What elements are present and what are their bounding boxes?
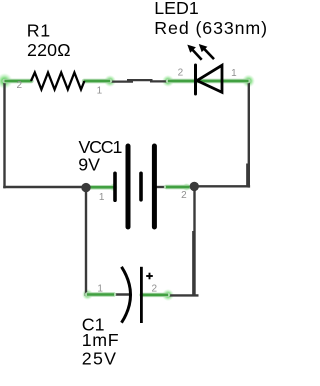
svg-text:LED1: LED1 <box>154 0 199 18</box>
green leg resistor pin2 <box>5 79 32 83</box>
wire left vertical <box>3 80 5 189</box>
LED1 cathode bar <box>194 65 197 94</box>
green leg LED pin2 and pin1 <box>168 79 249 83</box>
capacitor C1 straight plate <box>140 267 143 323</box>
LED1 emission arrow 1 <box>187 45 201 60</box>
wire right down vertical doubled lower part <box>192 231 194 295</box>
node glow battery pin2 <box>183 183 191 191</box>
svg-text:1: 1 <box>97 284 103 295</box>
wire cap pin1 stub <box>110 293 131 295</box>
wire cap row right <box>168 294 199 296</box>
wire top middle segment a <box>110 80 133 82</box>
svg-text:1: 1 <box>99 192 105 203</box>
LED1 triangle <box>197 65 222 92</box>
node glow LED pin2 end <box>162 75 174 87</box>
green leg capacitor pin2 <box>142 293 169 297</box>
svg-text:25V: 25V <box>82 348 118 368</box>
battery VCC1 short bar 2 (negative plate) <box>139 173 143 200</box>
svg-text:1: 1 <box>97 86 103 97</box>
node glow battery pin1 <box>109 183 117 191</box>
svg-text:Red (633nm): Red (633nm) <box>154 18 268 38</box>
svg-text:2: 2 <box>181 190 187 201</box>
wire battery pin2 stub <box>156 186 166 188</box>
wire battery row left <box>3 186 86 188</box>
wire right down vertical <box>193 187 195 297</box>
resistor R1 zigzag <box>31 73 84 90</box>
wire right vertical doubled lower part <box>246 164 248 188</box>
wire battery row right <box>194 185 250 187</box>
node glow resistor pin1 end <box>104 75 116 87</box>
battery VCC1 short bar 1 (negative plate) <box>113 173 117 200</box>
battery VCC1 tall bar 1 (positive plate) <box>126 146 131 227</box>
svg-text:R1: R1 <box>27 20 51 40</box>
node glow capacitor pin1 corner <box>82 289 93 300</box>
battery VCC1 tall bar 2 (positive plate) <box>152 146 157 227</box>
green leg battery pin1 <box>91 185 114 189</box>
wire left down vertical <box>85 188 87 296</box>
green leg resistor pin1 <box>84 79 110 83</box>
wire cap row left corner <box>85 293 100 295</box>
node glow capacitor pin2 end <box>162 289 174 301</box>
svg-text:1: 1 <box>231 68 237 79</box>
capacitor C1 curved plate <box>122 267 131 323</box>
junction dot right (node between LED1, VCC1, C1) <box>190 182 199 191</box>
svg-text:2: 2 <box>178 68 184 79</box>
wire top middle segment c <box>150 80 168 82</box>
node glow top-left corner <box>0 73 13 89</box>
capacitor C1 plus sign <box>146 273 153 280</box>
LED1 emission arrow 2 <box>199 44 214 59</box>
svg-text:1mF: 1mF <box>82 330 119 350</box>
svg-text:220Ω: 220Ω <box>27 40 71 60</box>
green leg capacitor pin1 <box>87 292 114 296</box>
svg-text:9V: 9V <box>78 154 100 174</box>
junction dot left (node between R1, VCC1, C1) <box>81 183 90 192</box>
svg-text:2: 2 <box>152 283 158 294</box>
wire right vertical <box>248 80 250 188</box>
wire top middle segment b (offset jog) <box>127 79 153 81</box>
node glow LED pin1 corner <box>242 75 255 88</box>
green leg battery pin2 <box>166 185 190 189</box>
svg-text:2: 2 <box>17 80 23 91</box>
